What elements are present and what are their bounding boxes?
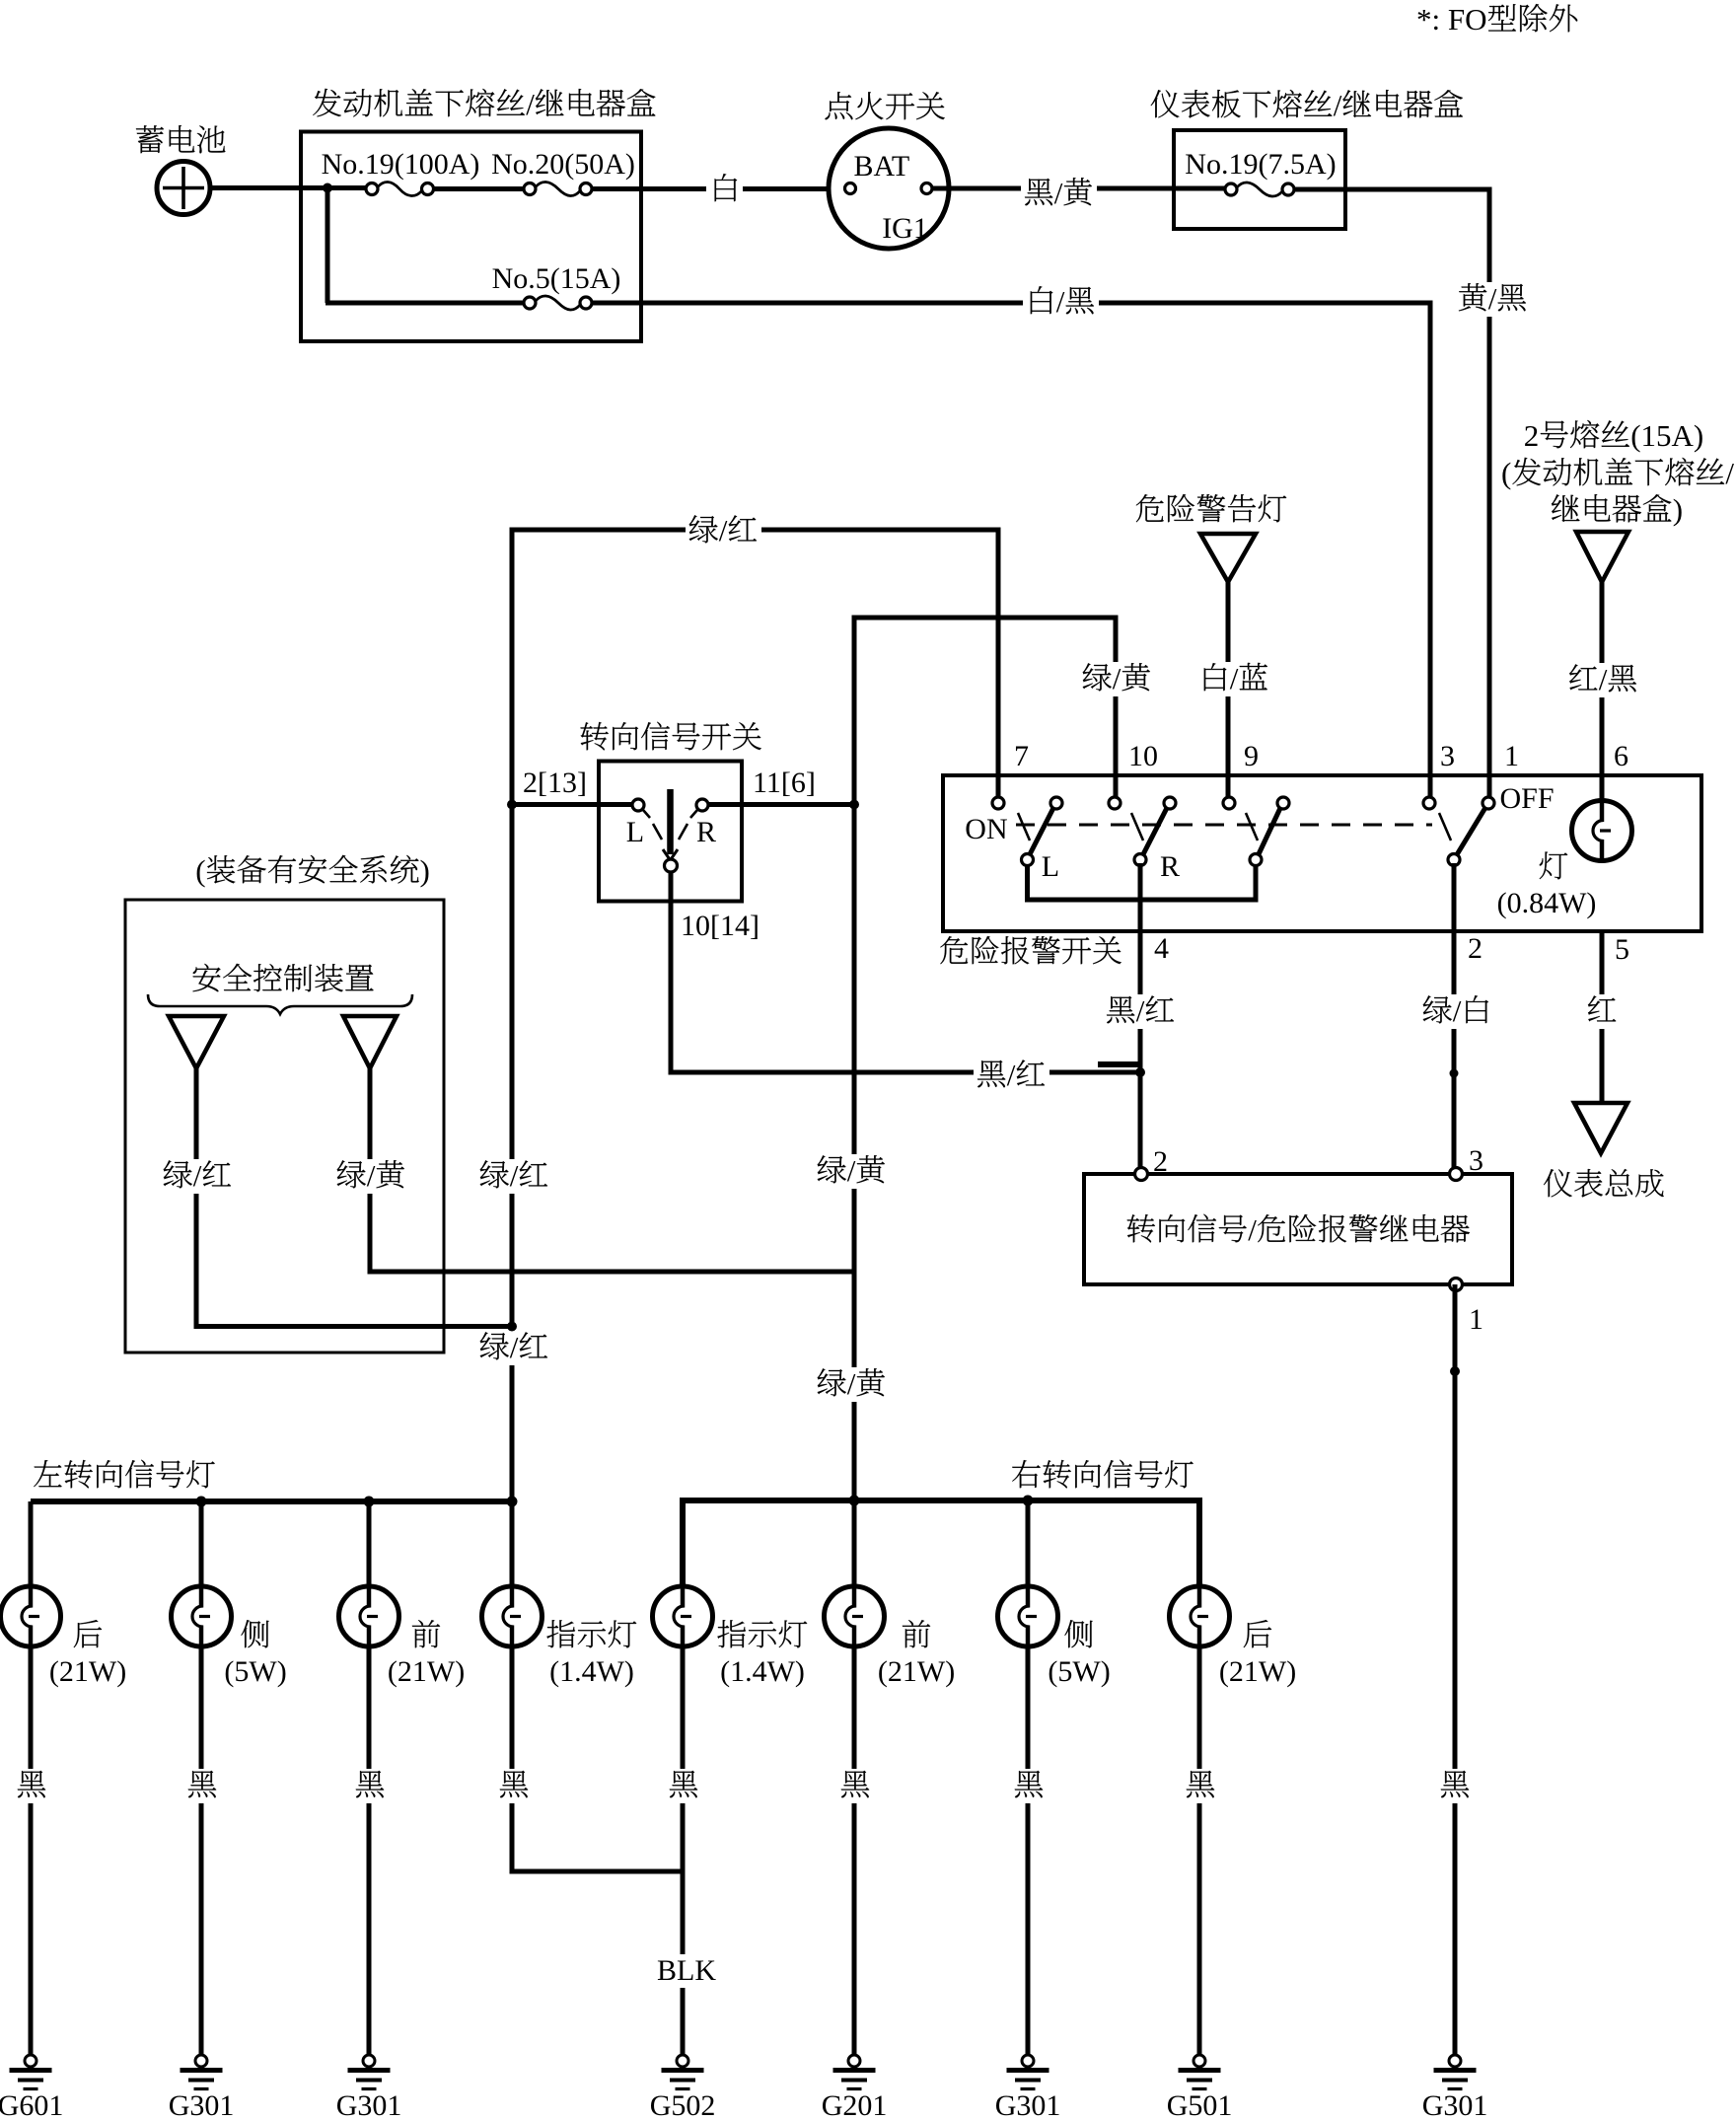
wire green/yellow horizontal to pin10 xyxy=(854,618,1155,805)
relay pin1 terminal xyxy=(1450,1279,1463,1291)
svg-text:/: / xyxy=(1054,176,1063,210)
svg-text:2[13]: 2[13] xyxy=(523,767,587,799)
svg-text:/: / xyxy=(1113,661,1121,695)
wire 10[14] to pin4 (黑/红) xyxy=(671,872,1138,1093)
turn switch R label xyxy=(696,816,716,848)
ground G201 x=866 xyxy=(822,2055,888,2121)
pin 2 label (switch) xyxy=(1468,932,1483,965)
svg-text:/: / xyxy=(1488,281,1497,316)
pin 9 label xyxy=(1244,740,1259,772)
turn switch R contact xyxy=(696,799,708,811)
safety system box xyxy=(125,900,444,1353)
wire relay pin1 to ground (黑) xyxy=(1436,1284,1473,2055)
turn signal switch box xyxy=(599,762,742,902)
svg-text:1: 1 xyxy=(1504,740,1519,772)
terminal arm1 top xyxy=(1050,797,1062,809)
OFF label xyxy=(1500,782,1555,815)
hazard switch arm tick 2 xyxy=(1131,813,1143,841)
node left bus 1 xyxy=(196,1497,207,1507)
wire to fuse No.5 xyxy=(325,301,524,306)
ground G301 x=204 xyxy=(169,2055,235,2121)
ignition BAT label xyxy=(854,150,910,183)
ground G301 relay xyxy=(1422,2055,1488,2121)
lamp label 指示灯 x=519 xyxy=(546,1620,636,1647)
ground G601 x=31 xyxy=(0,2055,63,2121)
terminal pin1 OFF xyxy=(1483,797,1494,809)
gauge assembly label 仪表总成 xyxy=(1544,1169,1664,1198)
svg-text:(5W): (5W) xyxy=(1048,1655,1110,1688)
wire lamp to ground x=692 (黑) xyxy=(665,1646,701,2055)
svg-text:2: 2 xyxy=(1153,1145,1168,1178)
L label xyxy=(1042,850,1059,883)
wire lamp to ground x=31 (黑) xyxy=(14,1646,50,2055)
wire bus to lamp x=866 xyxy=(852,1500,857,1586)
svg-text:G301: G301 xyxy=(1422,2089,1488,2121)
wire green/yellow vertical to lamp bus xyxy=(814,802,890,1501)
svg-text:(15A): (15A) xyxy=(1630,418,1703,453)
svg-text:No.5(15A): No.5(15A) xyxy=(492,262,621,295)
turn switch R dash xyxy=(679,810,697,840)
svg-text:/: / xyxy=(1599,662,1608,696)
svg-text:/: / xyxy=(1334,88,1342,122)
wire lamp to ground x=1216 (黑) xyxy=(1182,1646,1218,2055)
svg-text:*: FO: *: FO xyxy=(1416,2,1487,37)
lamp 侧(5W) x=204 xyxy=(172,1586,232,1646)
left turn signal lamps label 左转向信号灯 xyxy=(34,1460,214,1489)
lamp 指示灯(1.4W) x=519 xyxy=(482,1586,542,1646)
wire lamp to ground x=866 (黑) xyxy=(836,1646,873,2055)
svg-text:/: / xyxy=(1453,993,1462,1028)
wire fuse19 to fuse20 xyxy=(433,186,524,191)
lamp 前(21W) x=866 xyxy=(825,1586,885,1646)
lamp 指示灯(1.4W) x=692 xyxy=(653,1586,713,1646)
hazard link L-R terminals xyxy=(1028,863,1257,900)
svg-text:3: 3 xyxy=(1469,1144,1483,1177)
svg-text:2: 2 xyxy=(1468,932,1483,965)
wire pin5 to gauge assembly (红) xyxy=(1584,931,1621,1103)
pin 10[14] label xyxy=(681,910,759,942)
hazard switch dashed actuator line xyxy=(1016,824,1432,827)
svg-text:4: 4 xyxy=(1154,932,1169,965)
under-hood fuse/relay box xyxy=(301,132,641,342)
wire battery to fuse box xyxy=(210,185,367,190)
svg-text:/: / xyxy=(847,1366,856,1401)
svg-text:(: ( xyxy=(195,853,205,888)
svg-text:/: / xyxy=(1230,661,1239,695)
svg-text:11[6]: 11[6] xyxy=(753,767,816,799)
wire lamp to ground x=204 (黑) xyxy=(183,1646,220,2055)
hazard switch arm ON-L xyxy=(1029,806,1054,856)
node 2[13] junction xyxy=(507,800,517,810)
svg-text:7: 7 xyxy=(1014,740,1029,772)
ignition BAT terminal xyxy=(845,183,856,194)
svg-text:/: / xyxy=(510,1330,519,1364)
node: battery feed junction xyxy=(323,183,332,193)
relay pin3 terminal xyxy=(1450,1168,1463,1181)
safety control unit label 安全控制装置 xyxy=(193,964,374,992)
safety unit left arrow xyxy=(169,1016,224,1068)
dash fuse box label 仪表板下熔丝/继电器盒 xyxy=(1151,88,1463,122)
joint connector bar xyxy=(1098,1061,1141,1067)
terminal pin3 xyxy=(1423,797,1435,809)
svg-text:6: 6 xyxy=(1614,740,1628,772)
svg-text:2: 2 xyxy=(1524,418,1540,453)
pin 7 label xyxy=(1014,740,1029,772)
node on green/white wire xyxy=(1450,1069,1459,1078)
wire 11[6] to green/yellow xyxy=(708,802,856,807)
svg-text:/: / xyxy=(1007,1058,1016,1092)
lamp label (21W) x=374 xyxy=(388,1655,465,1688)
wire bus to lamp x=31 xyxy=(29,1501,34,1586)
wire 2[13] from green/red xyxy=(510,802,632,807)
svg-text:/: / xyxy=(526,87,535,121)
svg-text:1: 1 xyxy=(1469,1303,1483,1336)
brace under label xyxy=(148,994,412,1014)
wire fuse5 to hazard pin3 (白/黑) xyxy=(592,284,1430,320)
fuse No.5(15A) label xyxy=(492,262,621,295)
svg-text:R: R xyxy=(696,816,716,848)
wire green/red vertical to lamp bus xyxy=(476,802,552,1501)
R label xyxy=(1160,850,1180,883)
turn switch L label xyxy=(626,816,644,848)
turn switch L dash xyxy=(643,810,662,840)
wire hazard light to pin9 (白/蓝) xyxy=(1196,580,1272,797)
lamp 后(21W) x=31 xyxy=(1,1586,61,1646)
turn switch arm xyxy=(663,789,678,860)
lamp 侧(5W) x=1042 xyxy=(998,1586,1058,1646)
turn switch common terminal xyxy=(665,859,678,872)
fuse No.20 50A xyxy=(524,182,592,195)
svg-text:G301: G301 xyxy=(995,2089,1061,2121)
svg-text:G301: G301 xyxy=(169,2089,235,2121)
relay pin2 terminal xyxy=(1135,1168,1148,1181)
lamp label 指示灯 x=692 xyxy=(717,1620,807,1647)
turn switch L contact xyxy=(632,799,644,811)
svg-text:): ) xyxy=(1673,492,1683,527)
wire white/black vertical to pin3 xyxy=(1428,301,1433,798)
fuse No.19(7.5A) label xyxy=(1185,148,1336,181)
wire fuse2 to lamp pin6 (红/黑) xyxy=(1565,580,1641,801)
lamp label 灯 xyxy=(1540,851,1568,879)
svg-text:G601: G601 xyxy=(0,2089,63,2121)
turn signal switch label 转向信号开关 xyxy=(581,722,761,751)
wire green/red horizontal (绿/红) xyxy=(512,513,998,805)
right lamp bus xyxy=(683,1500,1199,1586)
wire right arrow to green/yellow (绿/黄) xyxy=(333,1066,854,1272)
pin 2[13] label xyxy=(523,767,587,799)
terminal arm3 lower xyxy=(1250,854,1262,866)
svg-text:(: ( xyxy=(1501,456,1511,490)
wire pin2 to relay pin3 (绿/白) xyxy=(1419,863,1495,1174)
pin 6 label xyxy=(1614,740,1628,772)
terminal L lower xyxy=(1022,854,1034,866)
svg-text:/: / xyxy=(367,1158,376,1193)
fuse No.5 15A xyxy=(524,296,592,310)
relay pin1 number xyxy=(1469,1303,1483,1336)
lamp label 侧 x=1042 xyxy=(1064,1620,1092,1647)
svg-text:10[14]: 10[14] xyxy=(681,910,759,942)
node left bus 2 xyxy=(364,1497,375,1507)
svg-text:G501: G501 xyxy=(1167,2089,1233,2121)
svg-text:/: / xyxy=(1056,284,1065,319)
lamp label (5W) x=204 xyxy=(224,1655,286,1688)
terminal arm2 lower xyxy=(1134,854,1146,866)
ground G301 x=374 xyxy=(336,2055,402,2121)
ignition switch circle xyxy=(829,128,949,249)
right turn signal lamps label 右转向信号灯 xyxy=(1012,1460,1193,1489)
ignition IG1 label xyxy=(882,212,928,245)
lamp label 后 x=1216 xyxy=(1244,1620,1271,1647)
lamp label (0.84W) xyxy=(1497,887,1597,919)
svg-text:No.20(50A): No.20(50A) xyxy=(491,148,635,181)
lamp label 前 x=374 xyxy=(412,1620,440,1647)
svg-text:L: L xyxy=(1042,850,1059,883)
lamp label (1.4W) x=519 xyxy=(549,1655,634,1688)
fuse No.2 label 2号熔丝(15A) xyxy=(1501,418,1734,527)
ground G502 x=692 xyxy=(650,2055,716,2121)
svg-text:L: L xyxy=(626,816,644,848)
svg-text:/: / xyxy=(1248,1212,1257,1247)
svg-text:/: / xyxy=(1725,456,1734,490)
battery BATT xyxy=(157,162,210,215)
wire dash fuse to hazard pin1 (黄/黑) xyxy=(1293,189,1531,797)
hazard switch name label 危险报警开关 xyxy=(940,936,1121,964)
hazard switch box 危险报警开关 xyxy=(943,775,1701,931)
wire bus to lamp x=204 xyxy=(199,1501,204,1586)
relay box 转向信号/危险报警继电器 xyxy=(1084,1174,1512,1284)
wire bus to lamp x=519 xyxy=(510,1501,515,1586)
safety system label (装备有安全系统) xyxy=(195,853,430,888)
svg-text:/: / xyxy=(719,513,728,548)
fuse No.2 connector arrow xyxy=(1576,532,1628,582)
fuse No.20(50A) label xyxy=(491,148,635,181)
svg-text:5: 5 xyxy=(1615,933,1629,966)
node right bus 1 xyxy=(849,1496,860,1506)
svg-text:(21W): (21W) xyxy=(878,1655,955,1688)
node at pin4 wire xyxy=(1135,1067,1145,1077)
wire left indicator to G502 (黑) xyxy=(495,1646,683,1871)
svg-text:(21W): (21W) xyxy=(1219,1655,1296,1688)
BLK wire label xyxy=(654,1954,719,1988)
svg-text:(1.4W): (1.4W) xyxy=(720,1655,805,1688)
svg-text:/: / xyxy=(510,1158,519,1193)
terminal OFF lower xyxy=(1448,854,1460,866)
lamp 前(21W) x=374 xyxy=(339,1586,399,1646)
svg-text:No.19(100A): No.19(100A) xyxy=(322,148,480,181)
ON label xyxy=(965,813,1007,845)
svg-text:BLK: BLK xyxy=(657,1954,716,1987)
svg-text:(21W): (21W) xyxy=(49,1655,126,1688)
svg-text:(21W): (21W) xyxy=(388,1655,465,1688)
svg-text:(0.84W): (0.84W) xyxy=(1497,887,1597,919)
terminal arm2 top xyxy=(1164,797,1176,809)
pin 10 label xyxy=(1128,740,1158,772)
terminal pin7 xyxy=(992,797,1004,809)
hazard warning light label 危险警告灯 xyxy=(1136,494,1286,522)
terminal pin9 xyxy=(1223,797,1235,809)
fuse No.19 100A xyxy=(366,182,434,195)
wire left arrow to green/red (绿/红) xyxy=(160,1066,509,1327)
hazard switch arm tick 3 xyxy=(1246,813,1258,841)
lamp label (5W) x=1042 xyxy=(1048,1655,1110,1688)
under-dash fuse/relay box xyxy=(1174,130,1345,229)
wire pin4 to relay pin2 (黑/红) xyxy=(1103,863,1179,1174)
hazard switch arm tick 1 xyxy=(1018,813,1030,841)
lamp label (21W) x=866 xyxy=(878,1655,955,1688)
gauge assembly arrow xyxy=(1574,1103,1627,1153)
hazard switch arm OFF xyxy=(1456,806,1486,856)
wire lamp to ground x=1042 (黑) xyxy=(1010,1646,1047,2055)
note: FO type excluded xyxy=(1416,2,1577,37)
ground G301 x=1042 xyxy=(995,2055,1061,2121)
hazard lamp 灯 0.84W xyxy=(1572,801,1632,861)
hazard switch arm R xyxy=(1142,806,1168,856)
svg-text:G301: G301 xyxy=(336,2089,402,2121)
engine fuse box label 发动机盖下熔丝/继电器盒 xyxy=(313,87,655,121)
pin 11[6] label xyxy=(753,767,816,799)
hazard switch arm tick 4 xyxy=(1439,813,1451,841)
wire branch down to fuse No.5 xyxy=(325,185,330,303)
hazard warning light connector arrow xyxy=(1200,534,1256,582)
lamp label 前 x=866 xyxy=(903,1620,930,1647)
ignition IG1 terminal xyxy=(921,183,932,194)
relay pin3 number xyxy=(1469,1144,1483,1177)
node on relay output xyxy=(1450,1366,1460,1376)
svg-text:G502: G502 xyxy=(650,2089,716,2121)
lamp label (1.4W) x=692 xyxy=(720,1655,805,1688)
svg-text:ON: ON xyxy=(965,813,1007,845)
left lamp bus xyxy=(31,1499,512,1504)
terminal arm3 top xyxy=(1277,797,1289,809)
battery label 蓄电池 xyxy=(136,125,225,153)
ignition switch label 点火开关 xyxy=(825,92,944,119)
svg-text:(5W): (5W) xyxy=(224,1655,286,1688)
pin 1 label xyxy=(1504,740,1519,772)
fuse No.19 7.5A xyxy=(1225,183,1294,196)
ground G501 x=1216 xyxy=(1167,2055,1233,2121)
svg-text:(1.4W): (1.4W) xyxy=(549,1655,634,1688)
pin 5 label xyxy=(1615,933,1629,966)
svg-text:OFF: OFF xyxy=(1500,782,1555,815)
terminal pin10 xyxy=(1109,797,1121,809)
lamp label 侧 x=204 xyxy=(241,1620,268,1647)
node green/red junction xyxy=(507,1322,517,1332)
safety unit right arrow xyxy=(343,1016,397,1068)
svg-text:/: / xyxy=(193,1158,202,1193)
svg-text:IG1: IG1 xyxy=(882,212,928,245)
lamp 后(21W) x=1216 xyxy=(1170,1586,1230,1646)
lamp label (21W) x=31 xyxy=(49,1655,126,1688)
hazard switch arm 3 xyxy=(1258,806,1281,856)
svg-text:/: / xyxy=(1136,993,1145,1028)
wire bus to lamp x=1216 xyxy=(1197,1500,1202,1586)
relay pin2 number xyxy=(1153,1145,1168,1178)
wire fuse20 to ignition switch (白) xyxy=(592,173,845,207)
wire bus to lamp x=1042 xyxy=(1026,1500,1031,1586)
fuse No.19(100A) label xyxy=(322,148,480,181)
pin 3 label xyxy=(1440,740,1455,772)
svg-text:No.19(7.5A): No.19(7.5A) xyxy=(1185,148,1336,181)
svg-text:3: 3 xyxy=(1440,740,1455,772)
wire bus to lamp x=374 xyxy=(367,1501,372,1586)
wire bus to lamp x=692 xyxy=(681,1500,686,1586)
node 11[6] junction xyxy=(849,800,859,810)
svg-text:9: 9 xyxy=(1244,740,1259,772)
wire lamp to ground x=374 (黑) xyxy=(351,1646,388,2055)
pin 4 label xyxy=(1154,932,1169,965)
node left bus 3 xyxy=(507,1497,518,1507)
svg-text:BAT: BAT xyxy=(854,150,910,183)
svg-text:10: 10 xyxy=(1128,740,1158,772)
lamp label (21W) x=1216 xyxy=(1219,1655,1296,1688)
wire IG1 to dash fuse (黑/黄) xyxy=(932,176,1226,211)
svg-text:R: R xyxy=(1160,850,1180,883)
lamp label 后 x=31 xyxy=(74,1620,102,1647)
svg-text:/: / xyxy=(847,1153,856,1188)
svg-text:G201: G201 xyxy=(822,2089,888,2121)
node right bus 2 xyxy=(1023,1496,1034,1506)
svg-text:): ) xyxy=(420,853,430,888)
